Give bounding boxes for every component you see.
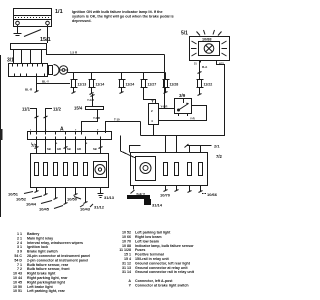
svg-text:7 1: 7 1 xyxy=(17,263,22,267)
svg-text:Right parking light, rear: Right parking light, rear xyxy=(27,276,68,280)
svg-text:1.5 R: 1.5 R xyxy=(70,50,78,54)
output wires of 7/1 xyxy=(36,188,38,191)
svg-text:11/13: 11/13 xyxy=(78,83,87,87)
svg-text:10/70: 10/70 xyxy=(160,193,171,198)
svg-text:31 14: 31 14 xyxy=(122,270,131,274)
fuse 11/28 xyxy=(165,73,167,80)
7/2 bottom wires xyxy=(165,186,167,190)
wire bus right branch xyxy=(106,122,141,134)
svg-text:Bulb failure sensor, front: Bulb failure sensor, front xyxy=(27,267,70,271)
switch link wire xyxy=(24,30,41,37)
svg-text:5/1: 5/1 xyxy=(181,31,188,37)
svg-text:Y-R: Y-R xyxy=(190,117,195,121)
svg-text:11/22: 11/22 xyxy=(204,83,213,87)
svg-text:10 45: 10 45 xyxy=(13,280,22,284)
ground 31/13 xyxy=(100,188,102,193)
fuse 11/13 xyxy=(73,73,75,80)
svg-text:Y-GR: Y-GR xyxy=(93,116,100,120)
svg-text:GR: GR xyxy=(57,147,61,151)
svg-text:3/9: 3/9 xyxy=(179,93,186,98)
hook to relay 2/1 xyxy=(130,146,141,153)
svg-text:31/14: 31/14 xyxy=(152,203,163,208)
svg-text:Bulb failure sensor, rear: Bulb failure sensor, rear xyxy=(27,263,69,267)
lamp unit in 7/2 xyxy=(136,157,156,181)
wire 7/2 lamp to relay 2/4 xyxy=(131,186,135,194)
svg-text:10/50: 10/50 xyxy=(67,197,78,202)
svg-text:Ground connector rail in relay: Ground connector rail in relay unit xyxy=(135,270,195,274)
svg-text:Left brake light: Left brake light xyxy=(27,285,54,289)
svg-text:11/14: 11/14 xyxy=(96,83,105,87)
svg-text:31/13: 31/13 xyxy=(104,195,115,200)
svg-text:7/2: 7/2 xyxy=(216,154,222,159)
svg-text:10/88: 10/88 xyxy=(202,38,212,42)
fuse supply rail from ignition xyxy=(68,72,166,74)
svg-text:31/12: 31/12 xyxy=(94,205,105,210)
svg-text:T-10: T-10 xyxy=(114,118,120,122)
wires bus to ignition switch xyxy=(13,50,15,63)
svg-text:10/44: 10/44 xyxy=(26,202,37,207)
wire 30-feed from bus to brake switch column xyxy=(47,49,165,55)
svg-text:54 D: 54 D xyxy=(14,258,22,262)
svg-text:BL-R: BL-R xyxy=(25,88,33,92)
svg-text:1 1: 1 1 xyxy=(17,232,22,236)
svg-text:Right parking/tail light: Right parking/tail light xyxy=(27,280,66,284)
svg-text:10/43: 10/43 xyxy=(80,207,91,212)
svg-text:Ground connector at relay unit: Ground connector at relay unit xyxy=(135,266,188,270)
ground at battery xyxy=(17,25,19,33)
instruction text block xyxy=(72,10,174,23)
svg-text:15/1: 15/1 xyxy=(40,37,51,43)
svg-text:1/1: 1/1 xyxy=(55,9,63,15)
svg-text:15/4: 15/4 xyxy=(74,106,83,111)
svg-text:7 2: 7 2 xyxy=(17,267,22,271)
svg-text:Left parking tail light: Left parking tail light xyxy=(135,231,171,235)
svg-text:Right low beam: Right low beam xyxy=(135,235,162,239)
svg-text:10 50: 10 50 xyxy=(13,285,22,289)
svg-text:Ignition lock: Ignition lock xyxy=(27,245,48,249)
lamp rays xyxy=(191,30,227,56)
svg-text:Y: Y xyxy=(151,99,154,104)
svg-text:10 51: 10 51 xyxy=(13,289,22,293)
svg-text:SB: SB xyxy=(67,147,71,151)
wire Y bottom to return wire xyxy=(153,125,155,136)
svg-text:3/1: 3/1 xyxy=(7,58,14,64)
svg-text:15 1: 15 1 xyxy=(124,253,131,257)
svg-text:BL-Y: BL-Y xyxy=(42,80,49,84)
svg-text:15/I-rail in relay unit: 15/I-rail in relay unit xyxy=(135,257,170,261)
svg-text:3 9: 3 9 xyxy=(17,250,22,254)
svg-text:Brake light switch: Brake light switch xyxy=(27,250,58,254)
svg-text:10 88: 10 88 xyxy=(122,244,131,248)
ignition switch lower wires xyxy=(36,77,38,91)
svg-text:Ignition ON with bulb failure: Ignition ON with bulb failure indicator … xyxy=(72,10,163,14)
svg-text:R-A: R-A xyxy=(202,65,208,69)
svg-text:Indicator lamp, bulb failure s: Indicator lamp, bulb failure sensor xyxy=(135,244,194,248)
svg-text:Positive terminal: Positive terminal xyxy=(135,253,164,257)
wire lamp return to connector A xyxy=(141,61,225,136)
svg-text:Battery: Battery xyxy=(27,232,39,236)
wire to sensor 7/2 lamp xyxy=(121,136,136,159)
wire Y-GR to switch xyxy=(159,108,175,110)
svg-text:31 13: 31 13 xyxy=(122,266,131,270)
svg-text:Main light relay: Main light relay xyxy=(27,236,53,240)
svg-text:depressed.: depressed. xyxy=(72,19,91,23)
7/2 top pins xyxy=(165,136,167,153)
svg-text:54 C: 54 C xyxy=(14,254,22,258)
svg-text:SB: SB xyxy=(47,147,51,151)
rail 15/4 xyxy=(92,94,94,106)
svg-text:Y-GR: Y-GR xyxy=(161,105,168,109)
svg-text:Ground connector, left rear li: Ground connector, left rear light xyxy=(135,261,191,265)
svg-text:Connector at brake light switc: Connector at brake light switch xyxy=(135,284,189,288)
svg-text:Right brake light: Right brake light xyxy=(27,272,56,276)
svg-text:10 66: 10 66 xyxy=(122,235,131,239)
svg-text:Left low beam: Left low beam xyxy=(135,239,159,243)
sensing resistors in 7/2 xyxy=(164,163,168,176)
svg-text:11 1/28: 11 1/28 xyxy=(119,248,131,252)
relay coil symbol in 7/1 xyxy=(94,162,107,178)
svg-text:11/27: 11/27 xyxy=(148,83,157,87)
svg-text:10 44: 10 44 xyxy=(13,276,22,280)
svg-text:2 4: 2 4 xyxy=(17,241,22,245)
svg-text:10/66: 10/66 xyxy=(207,192,218,197)
legend left column xyxy=(13,232,90,293)
svg-text:Fuses: Fuses xyxy=(135,248,145,252)
svg-text:GR: GR xyxy=(77,147,81,151)
hook from fuse 11/2 xyxy=(46,109,53,132)
svg-text:Interval relay, windscreen wip: Interval relay, windscreen wipers xyxy=(27,241,83,245)
svg-text:10 52: 10 52 xyxy=(122,231,131,235)
svg-text:2-pin connector at instrument: 2-pin connector at instrument panel xyxy=(27,258,88,262)
svg-text:10/45: 10/45 xyxy=(39,207,50,212)
lamp 10/88 xyxy=(204,44,214,54)
sensing resistors in 7/1 xyxy=(35,163,39,176)
svg-text:3 1: 3 1 xyxy=(17,245,22,249)
svg-text:15 4: 15 4 xyxy=(124,257,131,261)
svg-text:system is OK, the light will g: system is OK, the light will go out when… xyxy=(72,14,174,18)
svg-text:28-pin connector at instrument: 28-pin connector at instrument panel xyxy=(27,254,90,258)
wires bus A to sensor 7/1 xyxy=(36,140,38,153)
svg-text:Y-GR: Y-GR xyxy=(87,98,94,102)
svg-text:2 1: 2 1 xyxy=(17,236,22,240)
svg-text:11/2: 11/2 xyxy=(53,107,62,112)
fuse 11/27 xyxy=(143,73,145,80)
svg-text:11/1: 11/1 xyxy=(22,107,31,112)
wire battery positive to bus xyxy=(47,25,49,43)
svg-text:2/1: 2/1 xyxy=(214,144,220,149)
fuse 11/24 xyxy=(121,73,123,80)
junction ticks on sensor feed wires xyxy=(35,147,103,149)
svg-text:10 70: 10 70 xyxy=(122,239,131,243)
svg-text:11/24: 11/24 xyxy=(126,83,135,87)
fuse 11/14 xyxy=(91,73,93,80)
legend right column xyxy=(119,231,195,288)
svg-text:Left parking light, rear: Left parking light, rear xyxy=(27,289,66,293)
svg-text:11/28: 11/28 xyxy=(170,83,179,87)
left page edge line xyxy=(0,55,2,217)
lamp pins xyxy=(200,61,202,63)
wire lamp to fuse 11/22 xyxy=(199,61,201,80)
svg-text:31 12: 31 12 xyxy=(122,261,131,265)
battery 1/1 xyxy=(14,9,52,27)
svg-text:7/1: 7/1 xyxy=(31,143,37,148)
wire fuse 11/27 to connector Y xyxy=(144,88,156,104)
ground rail 31/14 xyxy=(127,195,150,199)
svg-text:10 43: 10 43 xyxy=(13,272,22,276)
ground 31/12 xyxy=(90,204,93,207)
wire Y-R loop from switch xyxy=(159,106,207,121)
ignition switch key symbol xyxy=(49,65,68,76)
terminal bus 15/1 xyxy=(11,44,47,50)
svg-text:SB: SB xyxy=(93,147,97,151)
fuse 11/22 xyxy=(198,80,202,88)
wire from 15/4 down to connector A xyxy=(82,110,98,132)
